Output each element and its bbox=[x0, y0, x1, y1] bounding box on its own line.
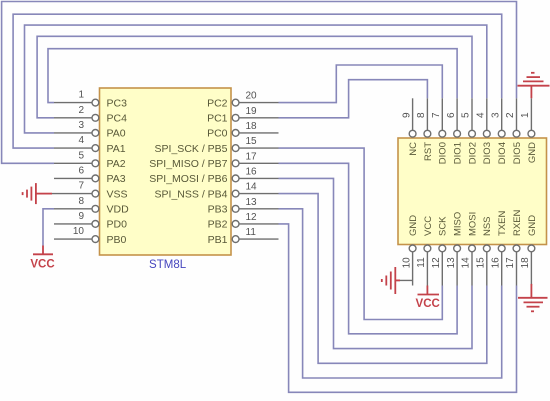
svg-text:14: 14 bbox=[461, 257, 472, 269]
svg-text:PB2: PB2 bbox=[208, 219, 228, 231]
wire PA2 to DIO5 bbox=[2, 2, 517, 164]
svg-text:PB0: PB0 bbox=[107, 234, 127, 246]
svg-text:17: 17 bbox=[505, 257, 516, 269]
svg-text:2: 2 bbox=[505, 112, 516, 118]
svg-text:5: 5 bbox=[461, 112, 472, 118]
svg-text:PA3: PA3 bbox=[107, 173, 126, 185]
svg-text:RXEN: RXEN bbox=[512, 209, 523, 236]
svg-text:PD0: PD0 bbox=[107, 219, 128, 231]
wire PA0 to DIO3 bbox=[25, 25, 487, 133]
U1 left pin numbers bbox=[73, 90, 85, 238]
U2 top pin leads bbox=[413, 98, 532, 130]
svg-text:4: 4 bbox=[476, 112, 487, 118]
ground VSS bbox=[23, 183, 52, 204]
svg-text:8: 8 bbox=[78, 196, 84, 207]
svg-text:PC2: PC2 bbox=[207, 97, 228, 109]
svg-text:GND: GND bbox=[527, 142, 538, 163]
svg-text:13: 13 bbox=[246, 197, 258, 208]
U2 bottom pin circles bbox=[409, 245, 535, 252]
svg-text:PA1: PA1 bbox=[107, 143, 126, 155]
svg-text:3: 3 bbox=[490, 112, 501, 118]
svg-text:17: 17 bbox=[246, 151, 258, 162]
svg-text:STM8L: STM8L bbox=[149, 259, 187, 271]
wire VDD to VCC rail bbox=[43, 209, 54, 246]
svg-text:NSS: NSS bbox=[482, 216, 493, 236]
svg-text:9: 9 bbox=[78, 211, 84, 222]
svg-text:VCC: VCC bbox=[30, 259, 54, 271]
svg-text:20: 20 bbox=[246, 91, 258, 102]
svg-text:16: 16 bbox=[246, 166, 258, 177]
svg-text:DIO5: DIO5 bbox=[512, 142, 523, 164]
svg-text:7: 7 bbox=[431, 112, 442, 118]
chip U2 RF module body bbox=[398, 138, 547, 245]
svg-text:SCK: SCK bbox=[438, 216, 449, 236]
U2 bottom pin names (rotated) bbox=[408, 209, 538, 236]
svg-text:2: 2 bbox=[78, 105, 84, 116]
svg-text:1: 1 bbox=[78, 90, 84, 101]
ground top right bbox=[518, 73, 550, 99]
svg-text:GND: GND bbox=[408, 215, 419, 236]
svg-text:10: 10 bbox=[401, 257, 412, 269]
svg-text:RST: RST bbox=[423, 142, 434, 161]
wire PC2 to DIO0 bbox=[279, 65, 443, 103]
wire SPI_SCK/PB5 to SCK bbox=[279, 148, 443, 319]
wire PA1 to DIO4 bbox=[13, 14, 502, 148]
ground bottom right bbox=[518, 284, 548, 311]
svg-text:PA2: PA2 bbox=[107, 158, 126, 170]
ground pin10 sideways bbox=[382, 267, 400, 294]
svg-text:SPI_MOSI / PB6: SPI_MOSI / PB6 bbox=[149, 173, 227, 185]
svg-text:DIO1: DIO1 bbox=[453, 142, 464, 164]
svg-text:PC4: PC4 bbox=[107, 113, 128, 125]
U1 right pin names bbox=[149, 97, 227, 246]
U1 left pin circles bbox=[92, 99, 99, 242]
svg-text:6: 6 bbox=[446, 112, 457, 118]
power VCC (pin11) bbox=[418, 286, 440, 295]
svg-text:DIO4: DIO4 bbox=[497, 142, 508, 164]
svg-text:TXEN: TXEN bbox=[497, 211, 508, 236]
U2 bottom pin leads bbox=[413, 252, 532, 286]
wire PC1 to RST bbox=[279, 80, 428, 118]
U2 bottom pin numbers (rotated) bbox=[401, 257, 531, 269]
svg-text:DIO0: DIO0 bbox=[438, 142, 449, 164]
svg-text:SPI_NSS / PB4: SPI_NSS / PB4 bbox=[155, 188, 228, 200]
svg-text:12: 12 bbox=[431, 257, 442, 269]
svg-text:VSS: VSS bbox=[107, 188, 128, 200]
wire GND pin10 jog bbox=[396, 279, 413, 281]
chip U1 STM8L body bbox=[100, 88, 232, 255]
wire PB2 to RXEN bbox=[279, 224, 517, 392]
svg-text:SPI_SCK / PB5: SPI_SCK / PB5 bbox=[155, 143, 228, 155]
svg-text:GND: GND bbox=[527, 215, 538, 236]
svg-text:15: 15 bbox=[246, 136, 258, 147]
U1 left pin leads 1-10 bbox=[52, 103, 92, 240]
svg-text:18: 18 bbox=[520, 257, 531, 269]
svg-text:10: 10 bbox=[73, 226, 85, 237]
svg-text:PB3: PB3 bbox=[208, 204, 228, 216]
svg-text:NC: NC bbox=[408, 142, 419, 156]
wire PC3 to DIO1 bbox=[48, 49, 457, 103]
svg-text:8: 8 bbox=[416, 112, 427, 118]
svg-text:13: 13 bbox=[446, 257, 457, 269]
svg-text:4: 4 bbox=[78, 135, 84, 146]
svg-text:7: 7 bbox=[78, 181, 84, 192]
svg-text:VCC: VCC bbox=[416, 298, 440, 310]
svg-text:MISO: MISO bbox=[453, 212, 464, 236]
U1 right pin numbers bbox=[246, 91, 258, 239]
svg-text:PC3: PC3 bbox=[107, 97, 128, 109]
svg-text:19: 19 bbox=[246, 106, 258, 117]
U2 top pin numbers (rotated) bbox=[401, 112, 531, 118]
svg-text:VDD: VDD bbox=[107, 204, 130, 216]
U2 top pin names (rotated) bbox=[408, 142, 538, 164]
svg-text:PC1: PC1 bbox=[207, 113, 228, 125]
svg-text:11: 11 bbox=[416, 257, 427, 268]
svg-text:PA0: PA0 bbox=[107, 128, 126, 140]
wire PB3 to TXEN bbox=[279, 209, 502, 378]
U2 top pin circles bbox=[409, 130, 535, 137]
U1 right pin leads bbox=[239, 103, 279, 240]
svg-text:PC0: PC0 bbox=[207, 128, 228, 140]
svg-text:5: 5 bbox=[78, 150, 84, 161]
svg-text:DIO2: DIO2 bbox=[467, 142, 478, 164]
power VCC (VDD) bbox=[33, 246, 53, 255]
wire PC4 to DIO2 bbox=[37, 36, 472, 118]
wire SPI_NSS/PB4 to NSS bbox=[279, 194, 487, 364]
svg-text:SPI_MISO / PB7: SPI_MISO / PB7 bbox=[149, 158, 227, 170]
svg-text:DIO3: DIO3 bbox=[482, 142, 493, 164]
svg-text:VCC: VCC bbox=[423, 216, 434, 236]
svg-text:3: 3 bbox=[78, 120, 84, 131]
svg-text:6: 6 bbox=[78, 165, 84, 176]
svg-text:18: 18 bbox=[246, 121, 258, 132]
U1 right pin circles bbox=[232, 99, 239, 242]
U1 left pin names bbox=[107, 97, 130, 246]
svg-text:PB1: PB1 bbox=[208, 234, 228, 246]
svg-text:1: 1 bbox=[520, 112, 531, 118]
svg-text:15: 15 bbox=[476, 257, 487, 269]
svg-text:12: 12 bbox=[246, 212, 258, 223]
svg-text:9: 9 bbox=[401, 112, 412, 118]
svg-text:MOSI: MOSI bbox=[467, 212, 478, 236]
wire SPI_MISO/PB7 to MISO bbox=[279, 163, 458, 333]
svg-text:14: 14 bbox=[246, 182, 258, 193]
wire SPI_MOSI/PB6 to MOSI bbox=[279, 178, 473, 348]
svg-text:11: 11 bbox=[246, 227, 257, 238]
svg-text:16: 16 bbox=[490, 257, 501, 269]
